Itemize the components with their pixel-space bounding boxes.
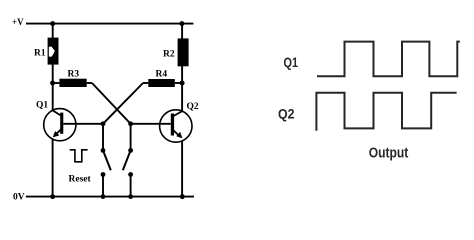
svg-text:Reset: Reset	[69, 175, 92, 185]
svg-text:Q1: Q1	[36, 101, 48, 111]
svg-text:Q1: Q1	[284, 55, 299, 70]
svg-text:Q2: Q2	[187, 102, 199, 112]
svg-text:Output: Output	[369, 146, 409, 162]
svg-text:R2: R2	[163, 50, 175, 60]
svg-text:Q2: Q2	[278, 107, 295, 122]
svg-text:+V: +V	[12, 17, 24, 27]
svg-text:R1: R1	[34, 49, 46, 59]
svg-text:R4: R4	[156, 70, 168, 80]
svg-text:R3: R3	[68, 70, 80, 80]
svg-text:0V: 0V	[13, 193, 25, 203]
